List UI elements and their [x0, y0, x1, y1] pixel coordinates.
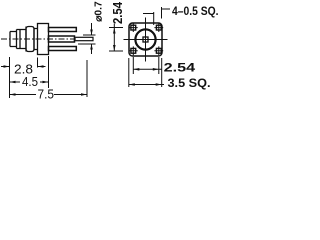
svg-text:7.5: 7.5 [38, 88, 55, 102]
dim 2.54 bottom dimension line [133, 68, 162, 70]
centerline axis (side view) [1, 38, 77, 40]
dim 7.5 dimension line [10, 94, 88, 96]
dim 0.7 arrows [91, 23, 93, 54]
svg-text:2.54: 2.54 [164, 63, 196, 75]
corner pin top-left [129, 23, 138, 32]
center pin square [143, 37, 148, 42]
corner pin top-right [154, 23, 163, 32]
svg-text:4–0.5 SQ.: 4–0.5 SQ. [172, 6, 219, 18]
dim 7.5 extension lines [10, 57, 88, 98]
connector body collar S3b [34, 29, 38, 50]
rear view square flange [129, 23, 162, 56]
label 4-0.5 SQ. leader [143, 7, 170, 25]
dim 0.7 extension lines [78, 35, 96, 44]
svg-text:⌀0.7: ⌀0.7 [94, 1, 105, 22]
dim 2.8 extension lines [37, 58, 39, 68]
corner pin bottom-left [129, 46, 138, 55]
dim 3.5 SQ. extension lines [129, 58, 162, 87]
dim 2.8 dimension line with outside arrows [1, 66, 46, 68]
rear view crosshair [124, 18, 168, 62]
coax outer circle [135, 29, 155, 49]
connector body tip section S1 [10, 32, 17, 47]
connector body section S2 [17, 27, 27, 52]
middle insulator/pin body (side view) [49, 36, 75, 42]
svg-text:4.5: 4.5 [22, 75, 38, 89]
connector body dome ring S3 [26, 27, 34, 52]
dim 2.54 bottom extension lines [133, 57, 159, 74]
center pin tip [75, 37, 94, 40]
top pin (side view) [49, 28, 77, 32]
corner pin bottom-right [154, 46, 163, 55]
dim 2.54 vertical (left of rear view) extension lines [109, 28, 123, 52]
dim 4.5 extension line right [48, 56, 50, 88]
dim 2.54 vertical dimension line [113, 24, 115, 52]
dim 3.5 SQ. dimension line [129, 84, 164, 86]
svg-text:3.5 SQ.: 3.5 SQ. [168, 78, 211, 90]
dim 4.5 dimension line [10, 81, 49, 83]
connector flange block [38, 24, 49, 55]
bottom pin (side view) [49, 47, 77, 51]
svg-text:2.54: 2.54 [110, 1, 125, 24]
